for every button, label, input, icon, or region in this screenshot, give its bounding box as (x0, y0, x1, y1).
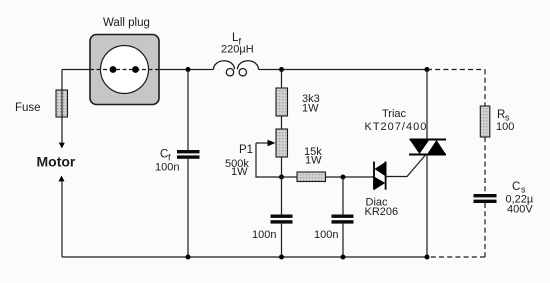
capacitor 100n right plates (332, 215, 354, 218)
svg-text:KR206: KR206 (365, 206, 399, 218)
wire dashed through wall plug (90, 69, 159, 71)
svg-text:100n: 100n (252, 229, 276, 241)
wire mid node to 15k (282, 176, 298, 178)
wire 3k3 to P1 (281, 116, 283, 129)
node junction top Cf (186, 67, 191, 72)
resistor 15k (297, 172, 326, 182)
svg-text:400V: 400V (507, 204, 533, 216)
svg-text:100: 100 (496, 121, 514, 133)
svg-text:C: C (512, 181, 520, 193)
wall plug pin right (132, 66, 139, 73)
resistor 3k3 (276, 88, 288, 116)
dashed wire Rs to Cs (484, 137, 486, 194)
triac T1 right triangle (427, 140, 446, 155)
svg-text:KT207/400: KT207/400 (365, 121, 428, 133)
P1 wiper wire down (256, 143, 282, 177)
wire fuse to motor terminal (61, 117, 63, 147)
svg-text:1W: 1W (305, 154, 322, 166)
motor terminal arrow top (59, 143, 65, 149)
diac D1 right bar (385, 162, 387, 190)
svg-text:100n: 100n (155, 162, 179, 174)
capacitor Cs plates (474, 194, 497, 197)
inductor L1 coil (213, 61, 258, 70)
node junction mid left (279, 175, 284, 180)
node junction mid right (341, 175, 346, 180)
svg-text:Motor: Motor (37, 154, 76, 170)
wall plug face circle (101, 46, 149, 94)
potentiometer P1 (276, 129, 288, 157)
node junction bottom 100n right (341, 255, 346, 260)
wire mid right down to 100n right (342, 177, 344, 215)
diac D1 upper triangle (375, 162, 386, 177)
wire top rail to triac (426, 70, 428, 140)
wire top rail left to wall plug (62, 69, 90, 71)
wire diac to triac gate (386, 156, 425, 177)
svg-text:1W: 1W (231, 166, 248, 178)
triac T1 top bar (410, 139, 447, 141)
svg-text:P1: P1 (239, 144, 253, 156)
node junction bottom 100n left (279, 255, 284, 260)
wall plug pin left (110, 66, 117, 73)
node junction top R1 branch (279, 67, 284, 72)
node junction top triac (425, 67, 430, 72)
dashed snubber bottom wire (427, 256, 485, 258)
wire Cf branch lower (187, 159, 189, 257)
wire triac to bottom rail (426, 155, 428, 258)
diac D1 lower triangle (374, 177, 385, 191)
motor terminal arrow bottom (59, 176, 65, 182)
dashed snubber right wire upper (484, 70, 486, 107)
wire mid node down to 100n left (281, 177, 283, 215)
wire top rail wall plug to triac branch (159, 69, 427, 71)
fuse (56, 90, 68, 117)
resistor Rs (480, 106, 490, 137)
wire 15k to diac (326, 176, 375, 178)
triac T1 left triangle (410, 140, 430, 155)
wire top to 3k3 (281, 70, 283, 89)
triac T1 bottom bar (409, 154, 446, 156)
wire left drop to fuse (61, 70, 63, 91)
svg-text:100n: 100n (314, 229, 338, 241)
wire 100n left to bottom rail (281, 224, 283, 257)
dashed snubber top wire (427, 69, 485, 71)
diac D1 left bar (373, 162, 375, 190)
svg-text:220µH: 220µH (221, 44, 254, 56)
wire bottom rail (62, 256, 427, 258)
wall plug body (90, 35, 159, 105)
svg-text:Wall plug: Wall plug (103, 17, 150, 29)
svg-text:Triac: Triac (382, 108, 407, 120)
dashed wire Cs to bottom (484, 203, 486, 257)
capacitor Cf plates (177, 150, 200, 153)
wire 100n right to bottom rail (342, 224, 344, 257)
P1 wiper arrow (256, 142, 270, 144)
svg-text:1W: 1W (302, 102, 319, 114)
wire Cf branch upper (187, 70, 189, 151)
node junction bottom Cf (186, 255, 191, 260)
capacitor 100n left plates (271, 215, 293, 218)
svg-text:Fuse: Fuse (15, 102, 41, 114)
wire P1 to mid node (281, 157, 283, 177)
wire motor terminal to bottom rail (61, 181, 63, 257)
node junction bottom triac (425, 255, 430, 260)
